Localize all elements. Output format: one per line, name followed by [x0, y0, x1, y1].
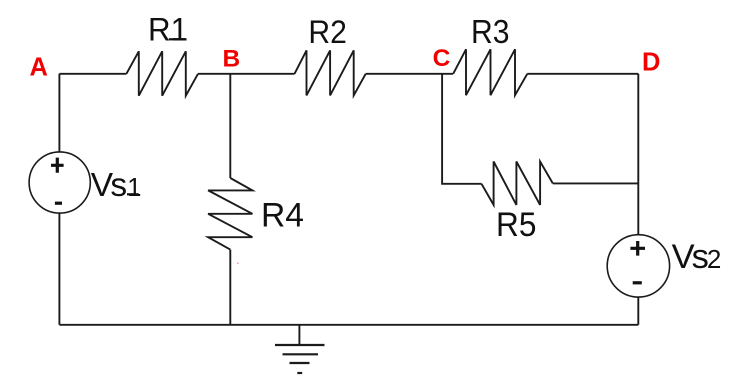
svg-text:Vs1: Vs1	[91, 167, 142, 204]
stray pink speck near R4	[237, 263, 239, 265]
wire: node B down to R4	[229, 74, 231, 178]
svg-text:R5: R5	[496, 206, 536, 244]
resistor R1	[126, 51, 198, 95]
svg-text:R3: R3	[471, 13, 510, 50]
wire: R4 down to bottom rail	[229, 250, 231, 325]
Vs2 minus sign	[633, 281, 642, 284]
voltage source Vs1 circle	[29, 152, 90, 213]
svg-text:R2: R2	[308, 14, 347, 50]
wire: bottom rail	[59, 324, 638, 326]
wire: top, R1 to node B to R2	[198, 73, 295, 75]
svg-text:R4: R4	[261, 197, 304, 235]
ground bar 1	[275, 344, 325, 346]
ground bar 3	[290, 362, 310, 364]
voltage source Vs2 circle	[607, 235, 669, 297]
Vs2 plus sign	[630, 241, 645, 256]
wire: top, node A to R1	[59, 73, 126, 75]
Vs1 plus sign	[51, 158, 64, 173]
wire: right branch, node D down to Vs2	[637, 74, 639, 235]
wire: Vs1 down to bottom rail	[58, 213, 60, 325]
label Vs1 digit foot	[127, 193, 139, 195]
wire: Vs2 down to bottom rail	[637, 297, 639, 325]
wire: R5 to right branch at node D column	[553, 182, 639, 184]
resistor R3	[453, 49, 527, 95]
Vs1 minus sign	[55, 202, 62, 205]
svg-text:B: B	[223, 45, 241, 72]
resistor R2	[295, 50, 366, 95]
label R1 digit foot	[169, 38, 185, 40]
wire: top, R2 to node C to R3	[366, 73, 453, 75]
wire: left branch, node A down to Vs1	[58, 74, 60, 152]
resistor R5	[482, 162, 553, 205]
ground bar 2	[283, 353, 319, 355]
svg-text:Vs2: Vs2	[672, 238, 722, 276]
wire: node C down then right to R5	[442, 74, 481, 184]
resistor R4	[208, 178, 252, 250]
ground bar 4 (dash)	[297, 372, 302, 374]
wire: top, R3 to node D	[527, 73, 638, 75]
ground stem	[298, 325, 300, 345]
svg-text:C: C	[433, 45, 451, 72]
svg-text:D: D	[642, 49, 660, 77]
svg-text:A: A	[30, 54, 48, 82]
svg-text:R1: R1	[148, 12, 188, 48]
